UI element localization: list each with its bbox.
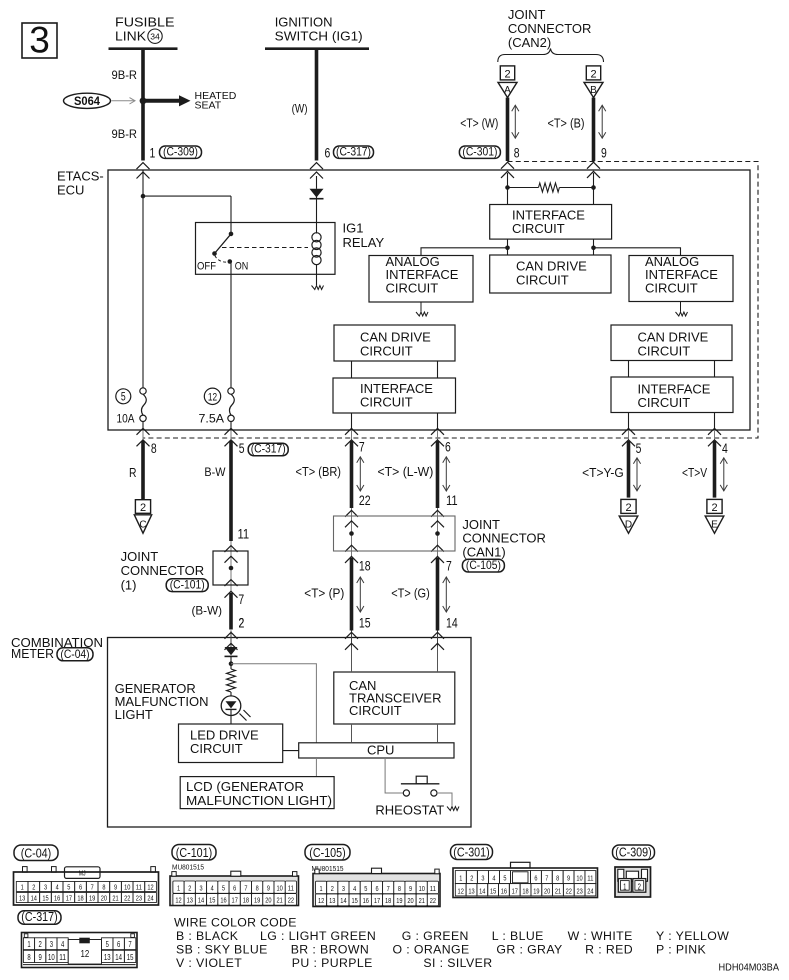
svg-text:CAN DRIVE: CAN DRIVE bbox=[638, 330, 709, 345]
svg-text:1: 1 bbox=[27, 940, 31, 949]
svg-text:9: 9 bbox=[114, 883, 117, 892]
svg-text:2: 2 bbox=[504, 68, 510, 80]
svg-text:2: 2 bbox=[638, 882, 642, 891]
svg-text:14: 14 bbox=[115, 953, 122, 962]
svg-text:CIRCUIT: CIRCUIT bbox=[638, 343, 691, 358]
svg-text:19: 19 bbox=[396, 896, 402, 905]
svg-text:CIRCUIT: CIRCUIT bbox=[360, 343, 413, 358]
svg-text:CIRCUIT: CIRCUIT bbox=[349, 703, 402, 718]
svg-text:21: 21 bbox=[555, 886, 561, 895]
svg-text:MJ: MJ bbox=[79, 871, 86, 878]
svg-text:E: E bbox=[711, 520, 718, 531]
svg-text:2: 2 bbox=[32, 883, 35, 892]
svg-text:(C-04): (C-04) bbox=[21, 847, 52, 861]
svg-text:4: 4 bbox=[722, 440, 728, 456]
svg-text:10: 10 bbox=[276, 884, 282, 893]
svg-text:(C-317): (C-317) bbox=[21, 910, 57, 924]
svg-text:7: 7 bbox=[244, 884, 247, 893]
svg-text:3: 3 bbox=[29, 20, 50, 61]
svg-text:6: 6 bbox=[79, 883, 82, 892]
svg-text:LINK: LINK bbox=[115, 28, 146, 43]
svg-text:MALFUNCTION LIGHT): MALFUNCTION LIGHT) bbox=[186, 793, 332, 808]
svg-text:CIRCUIT: CIRCUIT bbox=[360, 395, 413, 410]
svg-text:OFF: OFF bbox=[197, 260, 216, 272]
svg-text:P : PINK: P : PINK bbox=[656, 943, 707, 957]
svg-text:<T> (P): <T> (P) bbox=[304, 586, 344, 600]
svg-text:8: 8 bbox=[102, 883, 105, 892]
svg-text:8: 8 bbox=[398, 884, 401, 893]
svg-text:2: 2 bbox=[239, 614, 245, 630]
svg-text:22: 22 bbox=[430, 896, 436, 905]
svg-text:PU : PURPLE: PU : PURPLE bbox=[292, 956, 373, 970]
svg-text:5: 5 bbox=[636, 440, 642, 456]
svg-text:18: 18 bbox=[77, 894, 83, 903]
svg-text:18: 18 bbox=[385, 896, 391, 905]
svg-text:18: 18 bbox=[243, 896, 249, 905]
svg-text:20: 20 bbox=[101, 894, 107, 903]
svg-text:S064: S064 bbox=[74, 96, 101, 108]
svg-text:15: 15 bbox=[209, 896, 215, 905]
svg-text:1: 1 bbox=[150, 145, 156, 161]
svg-text:G : GREEN: G : GREEN bbox=[402, 929, 469, 943]
svg-text:10: 10 bbox=[48, 953, 55, 962]
svg-text:METER: METER bbox=[11, 646, 54, 661]
svg-text:(C-105): (C-105) bbox=[309, 846, 345, 860]
svg-text:<T> (B): <T> (B) bbox=[548, 116, 585, 130]
svg-text:CIRCUIT: CIRCUIT bbox=[512, 221, 565, 236]
svg-text:3: 3 bbox=[342, 884, 345, 893]
svg-text:1: 1 bbox=[21, 883, 24, 892]
svg-text:8: 8 bbox=[27, 953, 31, 962]
svg-text:5: 5 bbox=[106, 940, 110, 949]
svg-text:16: 16 bbox=[220, 896, 226, 905]
svg-text:WIRE COLOR CODE: WIRE COLOR CODE bbox=[174, 916, 297, 930]
svg-text:RELAY: RELAY bbox=[343, 235, 385, 250]
svg-text:14: 14 bbox=[479, 886, 485, 895]
svg-text:BR : BROWN: BR : BROWN bbox=[291, 943, 369, 957]
svg-text:18: 18 bbox=[359, 558, 371, 574]
svg-text:ECU: ECU bbox=[57, 182, 84, 197]
svg-text:<T> (BR): <T> (BR) bbox=[296, 465, 342, 479]
svg-text:11: 11 bbox=[587, 874, 593, 883]
svg-text:B : BLACK: B : BLACK bbox=[176, 929, 239, 943]
svg-text:10: 10 bbox=[576, 874, 582, 883]
svg-text:R: R bbox=[129, 465, 137, 480]
svg-text:5: 5 bbox=[67, 883, 70, 892]
svg-text:5: 5 bbox=[222, 884, 225, 893]
svg-text:INTERFACE: INTERFACE bbox=[360, 381, 433, 396]
svg-text:IG1: IG1 bbox=[343, 220, 364, 235]
svg-text:(W): (W) bbox=[292, 102, 308, 116]
svg-text:D: D bbox=[625, 520, 632, 531]
svg-text:4: 4 bbox=[61, 940, 65, 949]
svg-text:13: 13 bbox=[468, 886, 474, 895]
svg-text:SEAT: SEAT bbox=[195, 99, 222, 111]
svg-text:10: 10 bbox=[419, 884, 425, 893]
svg-text:9B-R: 9B-R bbox=[112, 127, 138, 141]
svg-text:(C-317): (C-317) bbox=[336, 144, 371, 158]
svg-text:34: 34 bbox=[150, 32, 160, 42]
svg-text:14: 14 bbox=[198, 896, 204, 905]
svg-text:15: 15 bbox=[490, 886, 496, 895]
svg-text:12: 12 bbox=[147, 883, 153, 892]
svg-text:CONNECTOR: CONNECTOR bbox=[121, 563, 205, 578]
svg-text:17: 17 bbox=[66, 894, 72, 903]
svg-text:CIRCUIT: CIRCUIT bbox=[190, 741, 243, 756]
svg-text:11: 11 bbox=[238, 525, 250, 541]
svg-text:Y : YELLOW: Y : YELLOW bbox=[656, 929, 729, 943]
svg-text:5: 5 bbox=[503, 874, 506, 883]
svg-text:12: 12 bbox=[208, 391, 217, 403]
svg-text:(C-101): (C-101) bbox=[176, 846, 212, 860]
svg-text:9: 9 bbox=[39, 953, 43, 962]
svg-text:2: 2 bbox=[590, 68, 596, 80]
svg-text:23: 23 bbox=[576, 886, 582, 895]
svg-text:MU801515: MU801515 bbox=[172, 864, 204, 871]
svg-text:3: 3 bbox=[44, 883, 47, 892]
svg-text:9: 9 bbox=[409, 884, 412, 893]
svg-text:11: 11 bbox=[136, 883, 142, 892]
svg-text:ON: ON bbox=[235, 260, 249, 272]
svg-text:18: 18 bbox=[522, 886, 528, 895]
svg-text:7: 7 bbox=[238, 591, 244, 607]
svg-text:6: 6 bbox=[375, 884, 378, 893]
svg-text:CAN DRIVE: CAN DRIVE bbox=[360, 330, 431, 345]
svg-text:21: 21 bbox=[112, 894, 118, 903]
svg-text:CIRCUIT: CIRCUIT bbox=[386, 281, 439, 296]
svg-text:1: 1 bbox=[177, 884, 180, 893]
svg-text:(C-301): (C-301) bbox=[453, 846, 489, 860]
svg-text:4: 4 bbox=[492, 874, 495, 883]
svg-text:17: 17 bbox=[232, 896, 238, 905]
svg-text:1: 1 bbox=[459, 874, 462, 883]
svg-text:16: 16 bbox=[501, 886, 507, 895]
svg-text:(C-105): (C-105) bbox=[466, 558, 501, 572]
svg-text:4: 4 bbox=[353, 884, 356, 893]
svg-text:IGNITION: IGNITION bbox=[275, 14, 333, 29]
svg-text:GR : GRAY: GR : GRAY bbox=[496, 943, 562, 957]
svg-text:7: 7 bbox=[446, 558, 452, 574]
svg-text:13: 13 bbox=[19, 894, 25, 903]
svg-text:W : WHITE: W : WHITE bbox=[568, 929, 633, 943]
svg-text:<T>V: <T>V bbox=[682, 466, 708, 480]
svg-text:3: 3 bbox=[50, 940, 54, 949]
svg-text:22: 22 bbox=[566, 886, 572, 895]
svg-text:CIRCUIT: CIRCUIT bbox=[638, 395, 691, 410]
svg-text:L : BLUE: L : BLUE bbox=[492, 929, 544, 943]
svg-text:22: 22 bbox=[124, 894, 130, 903]
svg-text:7: 7 bbox=[128, 940, 132, 949]
svg-text:13: 13 bbox=[329, 896, 335, 905]
svg-text:7: 7 bbox=[545, 874, 548, 883]
svg-text:16: 16 bbox=[363, 896, 369, 905]
svg-text:JOINT: JOINT bbox=[508, 7, 546, 22]
svg-text:13: 13 bbox=[104, 953, 111, 962]
svg-text:14: 14 bbox=[446, 614, 458, 630]
svg-text:CPU: CPU bbox=[367, 742, 394, 757]
svg-text:7: 7 bbox=[359, 439, 365, 455]
svg-text:<T> (L-W): <T> (L-W) bbox=[378, 465, 434, 479]
svg-text:4: 4 bbox=[211, 884, 214, 893]
svg-text:6: 6 bbox=[445, 439, 451, 455]
svg-text:CIRCUIT: CIRCUIT bbox=[645, 281, 698, 296]
svg-text:(CAN2): (CAN2) bbox=[508, 35, 551, 50]
svg-text:R : RED: R : RED bbox=[585, 943, 633, 957]
svg-text:1: 1 bbox=[320, 884, 323, 893]
svg-text:HDH04M03BA: HDH04M03BA bbox=[719, 963, 780, 974]
svg-text:CONNECTOR: CONNECTOR bbox=[508, 21, 592, 36]
svg-text:9: 9 bbox=[567, 874, 570, 883]
svg-text:7.5A: 7.5A bbox=[199, 414, 225, 426]
svg-text:19: 19 bbox=[254, 896, 260, 905]
svg-text:2: 2 bbox=[470, 874, 473, 883]
svg-text:SB : SKY BLUE: SB : SKY BLUE bbox=[176, 943, 268, 957]
svg-text:2: 2 bbox=[39, 940, 43, 949]
svg-text:<T> (W): <T> (W) bbox=[460, 116, 498, 130]
svg-text:9: 9 bbox=[601, 145, 607, 161]
svg-text:7: 7 bbox=[387, 884, 390, 893]
svg-text:20: 20 bbox=[407, 896, 413, 905]
svg-text:2: 2 bbox=[140, 502, 146, 514]
svg-text:19: 19 bbox=[533, 886, 539, 895]
svg-text:3: 3 bbox=[481, 874, 484, 883]
svg-text:6: 6 bbox=[534, 874, 537, 883]
svg-text:RHEOSTAT: RHEOSTAT bbox=[375, 803, 444, 818]
svg-text:8: 8 bbox=[151, 440, 157, 456]
svg-text:INTERFACE: INTERFACE bbox=[512, 207, 585, 222]
svg-text:11: 11 bbox=[59, 953, 66, 962]
svg-text:(B-W): (B-W) bbox=[192, 603, 223, 617]
svg-text:14: 14 bbox=[31, 894, 37, 903]
svg-text:12: 12 bbox=[318, 896, 324, 905]
svg-text:8: 8 bbox=[256, 884, 259, 893]
svg-text:SI : SILVER: SI : SILVER bbox=[423, 956, 492, 970]
svg-text:22: 22 bbox=[288, 896, 294, 905]
svg-text:4: 4 bbox=[56, 883, 59, 892]
svg-text:ETACS-: ETACS- bbox=[57, 168, 104, 183]
svg-text:12: 12 bbox=[81, 948, 90, 960]
svg-text:15: 15 bbox=[359, 614, 371, 630]
svg-text:15: 15 bbox=[127, 953, 134, 962]
svg-text:(C-309): (C-309) bbox=[163, 144, 198, 158]
svg-text:LIGHT: LIGHT bbox=[115, 707, 153, 722]
svg-text:(C-101): (C-101) bbox=[170, 578, 205, 592]
svg-text:21: 21 bbox=[276, 896, 282, 905]
svg-text:2: 2 bbox=[711, 502, 717, 514]
svg-text:2: 2 bbox=[625, 502, 631, 514]
svg-text:12: 12 bbox=[175, 896, 181, 905]
svg-text:SWITCH (IG1): SWITCH (IG1) bbox=[275, 28, 363, 43]
svg-text:24: 24 bbox=[587, 886, 593, 895]
svg-text:11: 11 bbox=[288, 884, 294, 893]
svg-text:LG : LIGHT GREEN: LG : LIGHT GREEN bbox=[260, 929, 376, 943]
svg-text:2: 2 bbox=[331, 884, 334, 893]
svg-text:14: 14 bbox=[340, 896, 346, 905]
svg-text:20: 20 bbox=[544, 886, 550, 895]
svg-text:16: 16 bbox=[54, 894, 60, 903]
svg-text:2: 2 bbox=[188, 884, 191, 893]
svg-text:22: 22 bbox=[359, 492, 371, 508]
svg-text:A: A bbox=[504, 85, 511, 96]
svg-text:V : VIOLET: V : VIOLET bbox=[176, 956, 242, 970]
svg-text:<T>Y-G: <T>Y-G bbox=[582, 466, 624, 480]
svg-text:9B-R: 9B-R bbox=[112, 68, 138, 82]
svg-text:10A: 10A bbox=[117, 414, 135, 426]
svg-text:FUSIBLE: FUSIBLE bbox=[115, 14, 175, 29]
svg-text:21: 21 bbox=[419, 896, 425, 905]
svg-text:B-W: B-W bbox=[204, 465, 226, 479]
svg-text:6: 6 bbox=[233, 884, 236, 893]
svg-text:24: 24 bbox=[147, 894, 153, 903]
svg-text:5: 5 bbox=[121, 391, 126, 403]
svg-text:6: 6 bbox=[117, 940, 121, 949]
svg-text:15: 15 bbox=[42, 894, 48, 903]
svg-text:8: 8 bbox=[556, 874, 559, 883]
svg-text:O : ORANGE: O : ORANGE bbox=[393, 943, 470, 957]
svg-text:B: B bbox=[590, 85, 597, 96]
svg-text:(C-301): (C-301) bbox=[462, 144, 497, 158]
svg-text:CAN DRIVE: CAN DRIVE bbox=[516, 259, 587, 274]
svg-text:23: 23 bbox=[136, 894, 142, 903]
svg-text:9: 9 bbox=[267, 884, 270, 893]
svg-text:11: 11 bbox=[446, 492, 458, 508]
svg-text:13: 13 bbox=[187, 896, 193, 905]
svg-text:5: 5 bbox=[239, 440, 245, 456]
svg-text:(C-309): (C-309) bbox=[615, 846, 651, 860]
svg-text:15: 15 bbox=[351, 896, 357, 905]
svg-text:17: 17 bbox=[374, 896, 380, 905]
svg-text:C: C bbox=[139, 519, 146, 530]
svg-text:11: 11 bbox=[430, 884, 436, 893]
svg-text:7: 7 bbox=[91, 883, 94, 892]
svg-text:5: 5 bbox=[364, 884, 367, 893]
svg-text:<T> (G): <T> (G) bbox=[391, 586, 430, 600]
svg-text:(C-04): (C-04) bbox=[60, 647, 89, 661]
svg-text:10: 10 bbox=[124, 883, 130, 892]
svg-text:8: 8 bbox=[514, 145, 520, 161]
svg-text:INTERFACE: INTERFACE bbox=[638, 381, 711, 396]
svg-text:1: 1 bbox=[623, 882, 627, 891]
svg-text:20: 20 bbox=[265, 896, 271, 905]
svg-text:12: 12 bbox=[458, 886, 464, 895]
svg-text:(C-317): (C-317) bbox=[251, 442, 286, 456]
svg-text:19: 19 bbox=[89, 894, 95, 903]
svg-text:3: 3 bbox=[199, 884, 202, 893]
svg-text:CIRCUIT: CIRCUIT bbox=[516, 272, 569, 287]
svg-text:(1): (1) bbox=[121, 577, 137, 592]
svg-text:6: 6 bbox=[325, 145, 331, 161]
svg-text:17: 17 bbox=[512, 886, 518, 895]
